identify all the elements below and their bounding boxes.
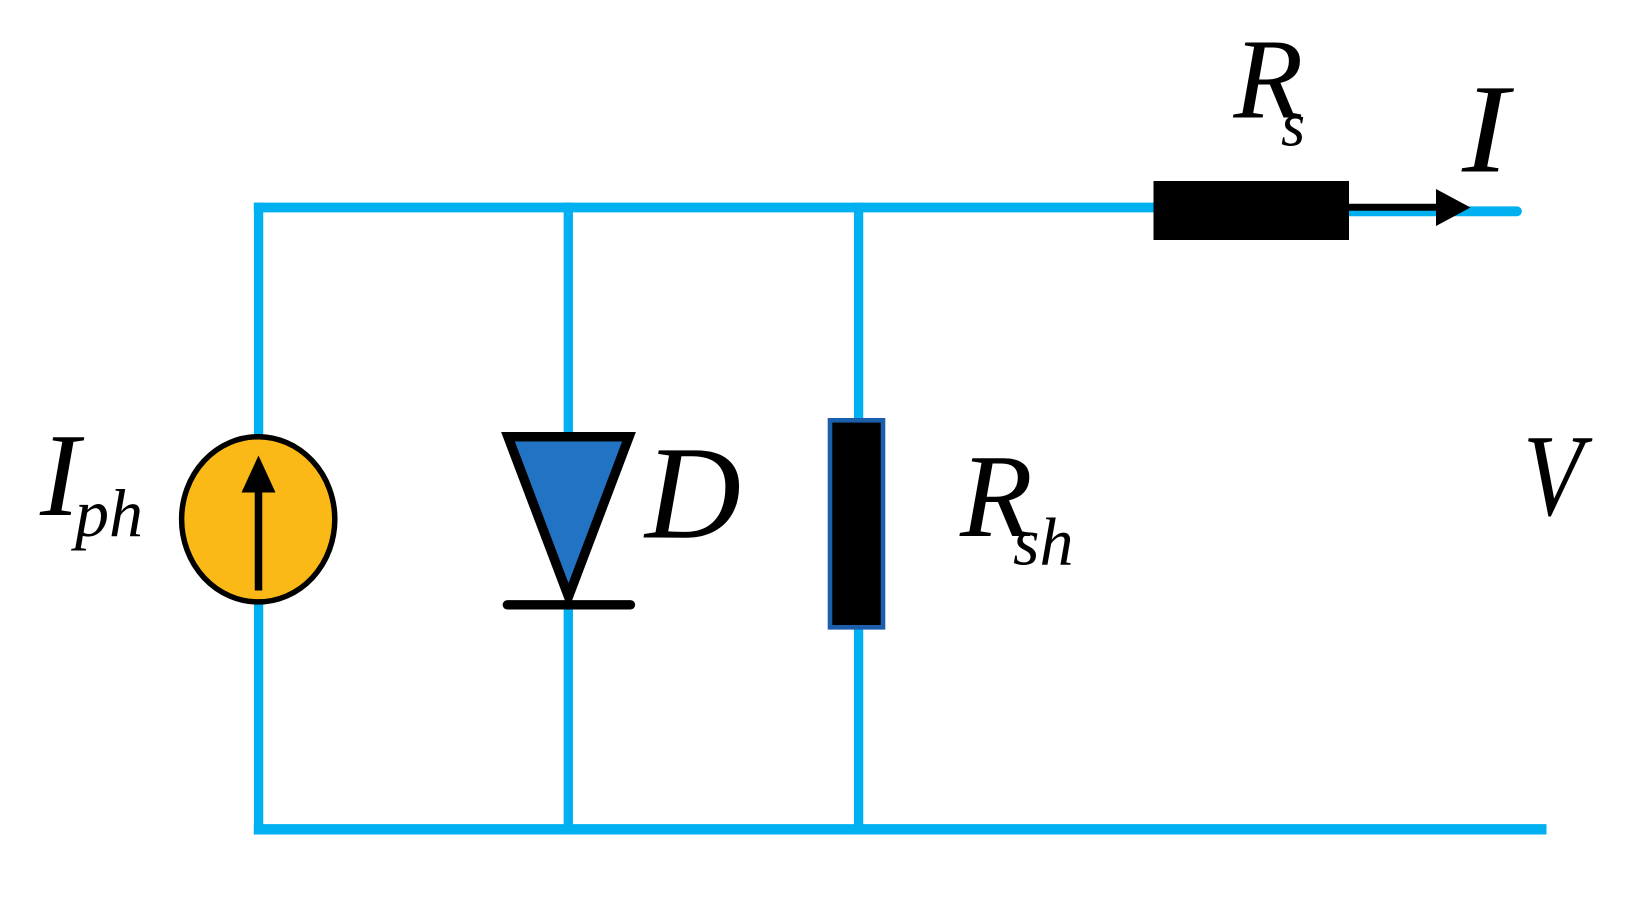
wire: output stub right of Rs (1345, 206, 1517, 216)
resistor Rs body (1154, 181, 1350, 240)
output current arrow shaft (1349, 204, 1437, 211)
wire: bottom bus node (254, 824, 1547, 834)
wire: diode branch lower segment (564, 604, 573, 834)
output current arrow head (1436, 189, 1471, 226)
svg-text:s: s (1281, 92, 1305, 160)
svg-text:V: V (1523, 412, 1593, 541)
svg-text:D: D (643, 419, 741, 567)
wire: top bus node (254, 203, 1157, 213)
current source Iph arrow shaft (255, 490, 263, 591)
wire: Rsh branch lower segment (854, 628, 863, 834)
svg-text:ph: ph (71, 475, 143, 551)
current source Iph arrow head (242, 456, 276, 493)
wire: left branch upper segment (254, 203, 263, 440)
diode D triangle (508, 437, 629, 597)
svg-text:I: I (1461, 58, 1514, 199)
current source Iph (circle) (182, 437, 335, 602)
diode D cathode bar (507, 600, 630, 609)
wire: Rsh branch upper segment (854, 203, 863, 420)
svg-text:sh: sh (1013, 504, 1073, 580)
resistor Rsh body (830, 420, 883, 627)
wire: left branch lower segment (254, 600, 263, 834)
wire: diode branch upper segment (564, 203, 573, 436)
